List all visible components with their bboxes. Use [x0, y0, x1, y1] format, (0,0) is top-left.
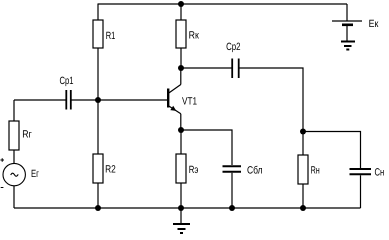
resistor R1 [93, 20, 103, 48]
svg-text:Rг: Rг [22, 129, 32, 141]
svg-text:Ср2: Ср2 [226, 41, 241, 53]
svg-text:R2: R2 [105, 164, 116, 176]
label Eг minus [1, 187, 4, 189]
capacitor Cн [350, 169, 372, 174]
node output junction [300, 129, 306, 135]
node rail R2 [95, 205, 101, 211]
transistor VT1 emitter arrow [170, 106, 176, 111]
node rail Rэ [178, 205, 184, 211]
node rail Cбл [229, 205, 235, 211]
svg-text:Rн: Rн [311, 164, 320, 176]
node emitter junction [178, 127, 184, 133]
wire top supply rail [98, 3, 348, 5]
svg-text:Сбл: Сбл [247, 165, 263, 177]
wire Rн bottom lead [302, 184, 304, 208]
wire output node to Cн [303, 132, 361, 169]
wire Cp1 right plate to base [72, 99, 168, 101]
capacitor Cp1 [66, 90, 71, 110]
battery Eк top lead [346, 4, 348, 21]
source Eг circle [3, 163, 25, 185]
wire Rн top lead [302, 132, 304, 156]
svg-text:Rэ: Rэ [189, 164, 199, 176]
transistor VT1 collector vertical [180, 68, 182, 85]
capacitor Cбл [223, 166, 242, 172]
battery Eк bottom lead [346, 26, 348, 42]
svg-text:Сн: Сн [375, 167, 385, 179]
svg-text:VT1: VT1 [182, 95, 197, 107]
wire Rг bottom lead [13, 150, 15, 164]
wire bottom ground rail [14, 207, 361, 209]
source Eг sine wave [11, 173, 19, 176]
wire Rг top lead [13, 100, 15, 121]
wire Cp2 to output node [240, 68, 304, 132]
wire Rк bottom lead [180, 48, 182, 68]
wire R2 bottom lead [97, 183, 99, 208]
wire Cбл bottom lead [231, 173, 233, 208]
resistor Rэ [176, 154, 186, 183]
transistor VT1 base bar [167, 89, 169, 108]
capacitor Cp2 [232, 59, 239, 79]
wire R1 bottom lead [97, 48, 99, 100]
ground main symbol [173, 208, 190, 233]
ground battery symbol [341, 42, 355, 50]
resistor Rк [176, 20, 186, 48]
svg-text:Ср1: Ср1 [60, 75, 74, 87]
wire Cн bottom lead [360, 175, 362, 208]
node junction top of Rк [178, 1, 184, 7]
node collector junction [178, 65, 184, 71]
transistor VT1 collector diagonal [169, 85, 181, 94]
wire Eг bottom lead [13, 186, 15, 209]
svg-text:Rк: Rк [189, 30, 200, 42]
wire emitter node to Cбл [181, 130, 232, 165]
label Eг plus [0, 158, 4, 187]
resistor Rг [9, 121, 19, 150]
transistor VT1 emitter diagonal [169, 106, 181, 114]
transistor VT1 emitter vertical [180, 114, 182, 130]
wire R1 top lead [97, 4, 99, 20]
wire Rэ top lead [180, 130, 182, 154]
battery Eк plates [332, 20, 362, 22]
svg-text:R1: R1 [106, 30, 116, 42]
wire Rэ bottom lead [180, 183, 182, 208]
node rail Rн [300, 205, 306, 211]
wire input node to Cp1 left plate [14, 99, 66, 101]
svg-text:Ек: Ек [369, 18, 379, 30]
wire Rк top lead [180, 4, 182, 20]
node base junction [95, 97, 101, 103]
wire collector node to Cp2 [181, 67, 232, 69]
wire R2 top lead [97, 100, 99, 154]
resistor Rн [298, 155, 308, 184]
svg-text:Ег: Ег [31, 168, 39, 180]
resistor R2 [93, 154, 103, 183]
